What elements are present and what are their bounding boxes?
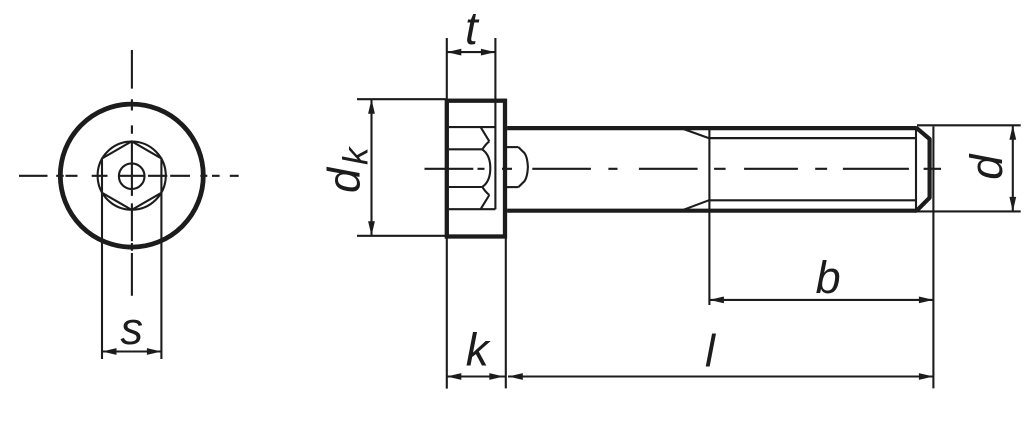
main centerline (side view) xyxy=(425,168,942,170)
pilot recess bottom line xyxy=(505,186,518,188)
socket entry chamfer bottom xyxy=(481,195,490,209)
l arrow right xyxy=(919,373,934,380)
dk arrow bottom xyxy=(368,221,375,236)
socket cone curve lower xyxy=(482,187,489,195)
b extension line left xyxy=(708,127,710,306)
pilot recess nose xyxy=(518,147,528,187)
thread root bottom line xyxy=(709,199,917,201)
socket across-corners outline (e) top line xyxy=(449,126,496,128)
t extension line left xyxy=(446,38,448,99)
pilot recess top line xyxy=(505,146,518,148)
vertical centerline (left view) xyxy=(131,50,133,296)
svg-text:b: b xyxy=(816,252,841,303)
t arrow right xyxy=(481,49,496,56)
full-thread boundary line xyxy=(915,126,917,212)
socket across-corners outline (e) bottom line xyxy=(449,208,496,210)
socket across-flats bottom line xyxy=(449,186,482,188)
s arrow left xyxy=(102,348,117,355)
dk dimension line xyxy=(370,99,372,236)
hex socket hexagon xyxy=(102,141,161,210)
thread runout top xyxy=(681,128,709,138)
s extension line left xyxy=(101,193,103,359)
d arrow top xyxy=(1009,125,1016,140)
socket circumscribed circle xyxy=(98,142,166,210)
shank bottom line xyxy=(507,209,916,213)
s dimension line xyxy=(102,350,161,352)
d extension line top xyxy=(917,124,1021,126)
dk extension line top xyxy=(357,98,447,100)
s extension line right xyxy=(160,193,162,359)
k arrow left xyxy=(447,373,462,380)
horizontal centerline (left view) xyxy=(19,175,239,177)
t dimension line xyxy=(447,51,496,53)
b arrow left xyxy=(709,297,724,304)
head outer circle xyxy=(60,104,203,247)
b / l extension line right (tip) xyxy=(932,127,934,389)
b dimension line xyxy=(709,299,933,301)
svg-text:s: s xyxy=(120,303,143,354)
d dimension line xyxy=(1012,125,1014,211)
d arrow bottom xyxy=(1009,197,1016,212)
socket entry chamfer top xyxy=(481,127,490,141)
k dimension line xyxy=(447,375,506,377)
socket across-flats top line xyxy=(449,148,482,150)
b arrow right xyxy=(919,297,934,304)
svg-text:t: t xyxy=(465,2,480,54)
socket drill-cone bulge xyxy=(482,150,490,187)
t extension line right / socket depth line xyxy=(494,38,496,209)
socket cone curve upper xyxy=(482,141,489,149)
d extension line bottom xyxy=(917,210,1021,212)
l dimension line xyxy=(508,375,933,377)
s arrow right xyxy=(147,348,162,355)
thread root top line xyxy=(709,137,917,139)
l arrow left xyxy=(508,373,523,380)
tip chamfer and face outline xyxy=(916,128,929,211)
svg-text:k: k xyxy=(466,323,491,375)
thread runout bottom xyxy=(681,200,709,210)
pilot hole small circle xyxy=(119,163,145,189)
dk extension line bottom xyxy=(357,235,447,237)
k / l extension line (under head) xyxy=(505,238,507,388)
head rectangle xyxy=(447,101,505,237)
k arrow right xyxy=(489,373,504,380)
shank top line xyxy=(507,126,916,130)
t arrow left xyxy=(447,49,462,56)
dk arrow top xyxy=(368,99,375,114)
k extension line left xyxy=(446,238,448,388)
svg-text:d: d xyxy=(961,153,1012,180)
